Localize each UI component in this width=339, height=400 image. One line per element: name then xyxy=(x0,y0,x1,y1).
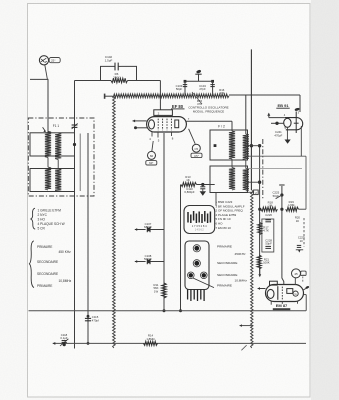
module pin comb xyxy=(187,290,189,300)
resistor R17 4,7K vertical xyxy=(258,223,262,235)
junction dots on chassis bus xyxy=(163,309,166,312)
tube EF80 envelope xyxy=(147,117,187,132)
stub with arrow to wavy line xyxy=(240,325,252,327)
trimmer antenna symbol xyxy=(198,74,200,81)
module pointer line xyxy=(193,278,214,288)
bottom supply line xyxy=(53,342,306,344)
F2 lower coil right xyxy=(243,169,249,192)
module dot top xyxy=(194,246,199,251)
EB91 left wire xyxy=(271,122,284,124)
T1 upper secondary coil xyxy=(55,133,61,160)
EF80 pin wire upper left xyxy=(133,120,147,122)
small cap C229 xyxy=(297,244,301,246)
EB91 plate line xyxy=(295,112,297,134)
EM87 grid cap box on top xyxy=(270,281,278,285)
EF80 plate wire to F/2 xyxy=(186,120,232,122)
F2 upper coil left xyxy=(229,131,235,159)
T1 upper primary coil xyxy=(45,131,51,157)
wire R19 to right xyxy=(299,208,307,210)
wire bus continuation right xyxy=(229,94,300,96)
EF80 bottom pin stubs xyxy=(151,132,153,137)
grid line vertical with trimmer xyxy=(282,186,284,282)
F2 lower box xyxy=(210,166,248,193)
EB91 top flag xyxy=(294,107,300,111)
capacitor C102 loop xyxy=(101,66,137,80)
trimmer C228 xyxy=(265,245,271,247)
wire grid bus y=80.5 xyxy=(75,80,101,82)
wire F2 to module xyxy=(215,193,217,206)
EM87 bar xyxy=(277,286,279,300)
resistor R13 1K xyxy=(181,182,197,186)
wire second vertical xyxy=(87,133,89,343)
chassis bus line upper xyxy=(29,310,307,312)
trimmer bars left xyxy=(183,84,187,86)
eye label box xyxy=(301,271,306,276)
junction dot on AVC line xyxy=(73,143,76,146)
riser left xyxy=(184,81,186,96)
EM87 top pin xyxy=(283,281,285,284)
wire F2 bottom to pin2 xyxy=(248,191,254,193)
EF80 grid bars xyxy=(157,119,159,131)
transformer T1 upper box xyxy=(30,133,75,156)
wire ratio out gray xyxy=(248,167,303,169)
F2 upper coil right xyxy=(243,134,249,160)
ground for C110 xyxy=(200,191,206,195)
EB91 cathode ellipse xyxy=(284,118,291,127)
module key bars xyxy=(187,212,189,223)
EB91 output wire down xyxy=(300,126,302,156)
resistor R18 1M xyxy=(261,207,277,211)
EM87 left terminal xyxy=(258,288,266,290)
EM87 G circle xyxy=(293,291,298,296)
transformer inner frame line xyxy=(79,134,81,192)
trimmer C226 xyxy=(265,219,271,221)
junction cross on AVC at bottom xyxy=(71,342,79,344)
wire to arrow end xyxy=(259,269,261,274)
diagonal wire to grid line xyxy=(276,195,282,199)
right cluster box xyxy=(262,219,274,252)
signal generator symbol G1 xyxy=(39,56,48,65)
module dot bottom-right xyxy=(202,273,206,277)
shield box F1/1 dash-dot xyxy=(28,118,94,196)
wire AVC vertical xyxy=(74,81,76,349)
wire bus to EB91 xyxy=(299,95,301,112)
junction on left column xyxy=(258,208,261,211)
dashed mechanical link xyxy=(303,218,305,247)
EF80 grid cap box xyxy=(154,110,173,116)
EM87 target rect xyxy=(287,289,293,294)
resistor R11 56K vertical in series xyxy=(162,283,167,298)
long vertical line B+ xyxy=(250,49,252,190)
capacitor C107 680pF xyxy=(135,229,146,231)
wire from eye to EM87 xyxy=(294,278,296,285)
module dot middle xyxy=(194,261,199,266)
wire down to EF80 grid cap xyxy=(159,81,161,110)
pointer to R15 label xyxy=(192,92,202,104)
EB91 left terminal arrow xyxy=(267,113,270,116)
wavy shield line vertical xyxy=(113,97,116,348)
transformer T1 lower box xyxy=(30,169,75,192)
T1 lower secondary coil xyxy=(55,169,61,192)
module body box xyxy=(185,241,209,290)
diagonal slash bottom xyxy=(241,345,246,350)
capacitor C110 to ground xyxy=(202,185,204,187)
EF80 pin wire lower left xyxy=(135,127,147,129)
tube EM87 envelope xyxy=(266,285,304,302)
test point TP2 circle xyxy=(189,129,196,144)
legend brace 1 xyxy=(31,208,35,229)
EF80 anode rect xyxy=(175,120,179,128)
wire antenna drop xyxy=(47,79,49,133)
label box for G1 xyxy=(49,58,60,63)
resistor R19 1,5M xyxy=(286,207,299,211)
EM87 bottom pins xyxy=(270,302,272,305)
legend brace 2 xyxy=(29,241,34,288)
terminal top right xyxy=(296,249,303,251)
wire top-left horizontal xyxy=(30,78,48,80)
wavy continuation of B+ line xyxy=(251,190,253,348)
capacitor C115 470pf on vertical xyxy=(85,317,91,319)
wire between windings xyxy=(47,158,49,168)
EF80 cathode arc xyxy=(149,120,155,129)
trimmer cap on AVC line xyxy=(72,124,78,126)
resistor R6 200K xyxy=(111,78,128,83)
wire F2 tap out xyxy=(248,145,260,147)
vertical line secondary xyxy=(259,146,261,275)
module dot bottom-left xyxy=(189,273,193,277)
F2 upper box xyxy=(210,130,248,160)
dashed link below eye box xyxy=(302,277,304,284)
capacitor C108 500pF xyxy=(135,261,146,263)
wire between F2 windings xyxy=(231,159,233,168)
TP2 label box xyxy=(191,153,202,157)
EB91 tube rails xyxy=(285,118,303,130)
wire detector out xyxy=(248,155,307,157)
node start of wavy bus xyxy=(104,94,106,99)
test point TP1 circle xyxy=(152,141,153,151)
pin 2 box xyxy=(254,190,259,195)
scan noise texture xyxy=(0,0,1,1)
T1 lower primary coil xyxy=(45,167,51,190)
EB91 left rail wire xyxy=(269,117,285,119)
arrow into primary xyxy=(43,127,46,131)
resistor R21 100K vertical xyxy=(257,255,261,269)
riser right xyxy=(212,81,214,96)
F2 square junction left xyxy=(214,144,217,147)
F2 shield dash-dot right edge xyxy=(262,139,264,200)
EM87 dashed grid xyxy=(281,287,283,300)
module socket top view box xyxy=(184,206,215,234)
EM87 inner circle xyxy=(267,289,274,298)
wire EF80 cathode down xyxy=(163,133,165,311)
wire osc bus down to coil2 xyxy=(245,95,247,134)
wire plate down to coil xyxy=(231,121,233,131)
EM87 right pins xyxy=(304,288,307,290)
osc top bus xyxy=(185,80,213,82)
F2 lower coil left xyxy=(229,168,235,191)
TP1 label box xyxy=(146,161,157,165)
trimmer bars right xyxy=(210,84,214,86)
resistive wavy bus xyxy=(112,94,229,98)
resistor R14 1,8M on bottom line xyxy=(144,341,158,345)
EB91 cathode ground xyxy=(286,127,288,139)
wire screen vertical xyxy=(180,185,182,311)
junction dots on secondary line xyxy=(258,144,261,147)
tuning eye circle xyxy=(292,269,301,278)
wire from G1 to node xyxy=(45,65,48,80)
